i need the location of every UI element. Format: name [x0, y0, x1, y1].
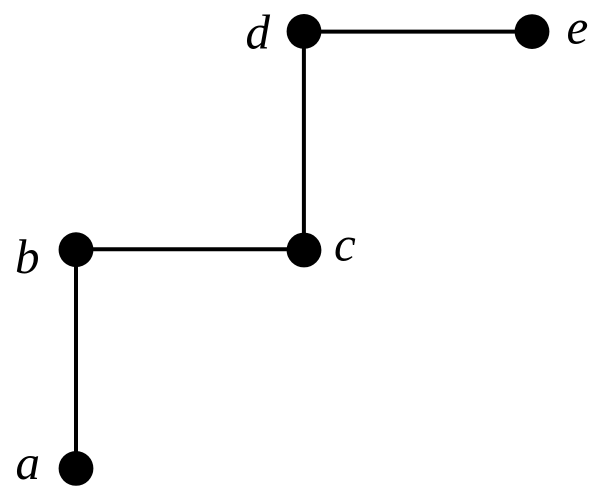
svg-text:b: b [15, 229, 40, 284]
svg-text:e: e [567, 0, 589, 55]
wire edge c-d [302, 31, 306, 250]
node e [515, 14, 550, 49]
svg-text:c: c [334, 217, 356, 272]
node d [287, 14, 322, 49]
svg-text:a: a [16, 435, 41, 490]
node b [59, 232, 94, 267]
node a [59, 451, 94, 486]
node c [287, 233, 322, 268]
wire edge a-b [74, 250, 78, 469]
svg-text:d: d [246, 5, 271, 60]
wire edge d-e [304, 30, 532, 34]
wire edge b-c [76, 247, 304, 251]
